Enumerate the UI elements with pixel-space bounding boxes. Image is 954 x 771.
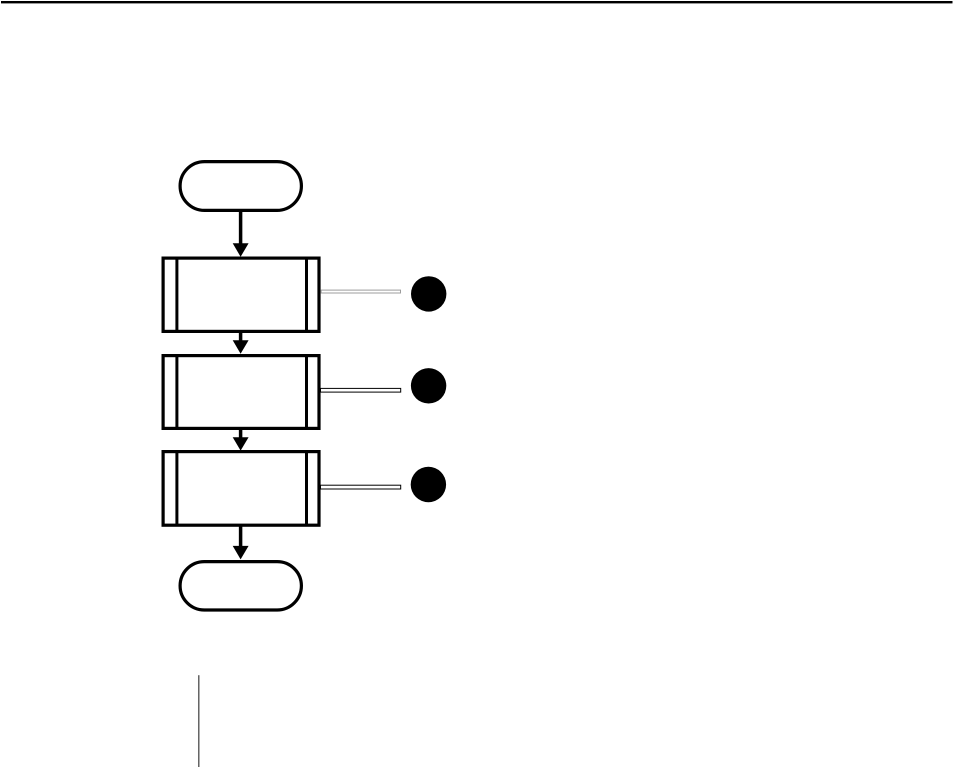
arrow 4 stem — [239, 526, 243, 546]
arrow 2 stem — [239, 332, 243, 341]
header rule — [1, 1, 953, 3]
process box 2 — [163, 356, 319, 429]
arrow 1 stem — [239, 211, 243, 245]
arrow 1 head — [233, 243, 249, 256]
terminator (end) — [180, 562, 301, 610]
process box 1 — [163, 258, 319, 331]
terminator (start) — [180, 162, 301, 211]
process box 1 right inner line — [305, 258, 308, 331]
process box 3 — [163, 452, 319, 526]
callout line 1 — [321, 290, 400, 293]
process box 1 left inner line — [175, 258, 178, 331]
process box 3 right inner line — [305, 452, 308, 526]
bullet 2 — [411, 368, 446, 403]
vertical line (bottom left) — [198, 675, 200, 767]
callout line 2 — [321, 388, 401, 392]
arrow 2 head — [233, 340, 249, 354]
bullet 1 — [411, 276, 446, 311]
process box 2 right inner line — [305, 356, 308, 429]
arrow 4 head — [233, 546, 249, 560]
process box 2 left inner line — [175, 356, 178, 429]
bullet 3 — [411, 467, 446, 502]
arrow 3 head — [233, 437, 249, 450]
arrow 3 stem — [239, 429, 243, 438]
callout line 3 — [321, 485, 401, 489]
process box 3 left inner line — [175, 452, 178, 526]
